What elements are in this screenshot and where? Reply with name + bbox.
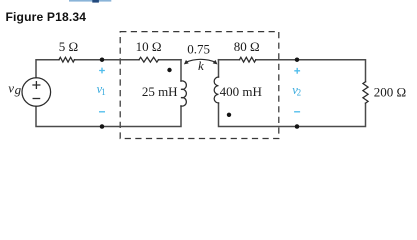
svg-text:v: v: [8, 81, 14, 96]
svg-text:400 mH: 400 mH: [220, 84, 262, 99]
svg-text:g: g: [15, 82, 22, 97]
svg-text:2: 2: [297, 87, 302, 97]
svg-text:Figure P18.34: Figure P18.34: [6, 10, 87, 24]
svg-text:5 Ω: 5 Ω: [59, 39, 78, 54]
svg-text:k: k: [198, 58, 204, 73]
svg-text:0.75: 0.75: [187, 42, 210, 57]
svg-text:10 Ω: 10 Ω: [136, 39, 162, 54]
svg-text:1: 1: [101, 87, 106, 97]
svg-text:80 Ω: 80 Ω: [234, 39, 260, 54]
svg-text:200 Ω: 200 Ω: [374, 85, 406, 100]
svg-text:25 mH: 25 mH: [142, 84, 178, 99]
